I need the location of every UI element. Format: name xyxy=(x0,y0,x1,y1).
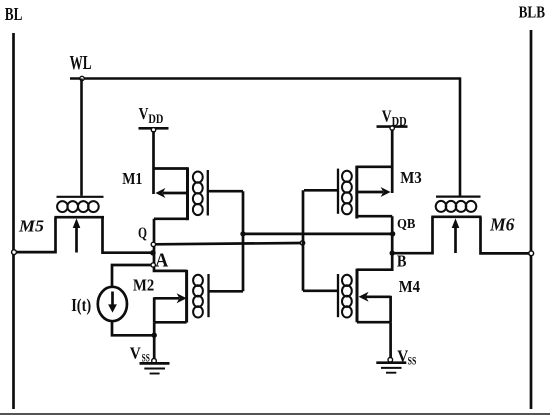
wire right cross-couple vertical (gates of M3,M4) xyxy=(302,190,305,290)
svg-text:M2: M2 xyxy=(133,275,154,294)
node on VDD right xyxy=(390,126,394,130)
label VDD left xyxy=(139,104,164,126)
wire Q column (M1 source to M2 drain) xyxy=(154,219,187,271)
current source I(t) xyxy=(98,287,127,321)
svg-text:V: V xyxy=(130,344,142,363)
svg-text:QB: QB xyxy=(397,217,415,232)
wire M1 gate lead xyxy=(208,190,243,193)
transistor M1 (PMOS pull-up left) xyxy=(154,167,208,220)
node on right gate vertical xyxy=(300,241,304,245)
junction on left gate vertical xyxy=(240,231,245,236)
transistor M4 (NMOS pull-down right) xyxy=(338,269,391,323)
label QB xyxy=(397,217,415,232)
svg-text:B: B xyxy=(397,251,407,270)
transistor M2 (NMOS pull-down left) xyxy=(154,270,208,323)
svg-text:SS: SS xyxy=(408,355,417,367)
label Q xyxy=(138,225,147,242)
wire left cross-couple vertical (gates of M1,M2) xyxy=(242,191,245,291)
label B xyxy=(397,251,407,270)
supply VDD left symbol xyxy=(139,127,169,130)
node on BL xyxy=(12,250,17,255)
node on WL (gate tap of M5) xyxy=(80,76,84,80)
wire M5 left lead to BL xyxy=(16,217,56,252)
transistor M3 (PMOS pull-up right) xyxy=(338,166,392,219)
wire WL corner down to M6 gate xyxy=(459,77,462,195)
svg-text:A: A xyxy=(155,250,168,272)
svg-text:M3: M3 xyxy=(400,168,422,187)
label BLB xyxy=(519,3,545,22)
wire M2 gate lead xyxy=(209,290,244,293)
wire Q to right gates (lower cross line) xyxy=(155,243,301,244)
label M2 xyxy=(133,275,154,294)
label M1 xyxy=(122,169,142,188)
svg-text:DD: DD xyxy=(148,112,163,126)
bit line BL xyxy=(12,33,15,409)
supply VDD right symbol xyxy=(377,125,408,128)
word line WL xyxy=(70,77,460,80)
node on VDD left xyxy=(151,128,155,132)
wire WL node down to M5 gate xyxy=(80,79,83,196)
wire M2 source down to VSS xyxy=(153,322,156,358)
wire node A to current source xyxy=(112,265,152,287)
wire M3 gate lead xyxy=(304,189,338,192)
node VSS right xyxy=(388,358,393,363)
ground left xyxy=(140,363,170,373)
junction at QB xyxy=(390,231,395,236)
label A xyxy=(155,250,168,272)
svg-text:M1: M1 xyxy=(122,169,142,188)
label M5 xyxy=(18,217,44,236)
label VSS right xyxy=(397,347,416,368)
svg-text:M4: M4 xyxy=(399,277,420,296)
transistor M6 (access NMOS, horizontal) xyxy=(431,197,481,253)
svg-text:BLB: BLB xyxy=(519,3,545,22)
wire QB to left gates (upper cross line) xyxy=(243,233,393,236)
wire VDD left down to M1 xyxy=(152,131,155,194)
junction M5 wire on Q column xyxy=(150,250,156,256)
junction node B xyxy=(390,250,395,255)
label I(t) xyxy=(71,295,91,316)
bit line BLB xyxy=(530,30,533,409)
node on BLB xyxy=(529,251,534,256)
svg-text:Q: Q xyxy=(138,225,147,242)
node Q xyxy=(151,242,155,246)
label WL xyxy=(70,52,92,74)
ground right xyxy=(376,363,406,373)
wire M6 right lead to BLB xyxy=(481,217,532,254)
wire M4 gate lead xyxy=(303,289,338,292)
svg-text:WL: WL xyxy=(70,52,92,74)
label BL xyxy=(5,4,23,24)
label M4 xyxy=(399,277,420,296)
wire M4 source down to VSS xyxy=(389,322,392,358)
transistor M5 (access NMOS, horizontal) xyxy=(54,197,104,253)
junction current source return xyxy=(152,333,157,338)
wire QB column (M3 source to M4 drain) xyxy=(357,216,392,270)
label M3 xyxy=(400,168,422,187)
label VSS left xyxy=(130,344,150,365)
label M6 xyxy=(489,215,514,235)
svg-text:BL: BL xyxy=(5,4,23,24)
svg-text:M6: M6 xyxy=(489,215,514,235)
wire M5 right lead to node Q column xyxy=(103,217,153,253)
wire M6 left lead to node B xyxy=(392,217,432,253)
bottom border line xyxy=(0,413,550,415)
svg-text:M5: M5 xyxy=(18,217,44,236)
wire current source to M2 source xyxy=(112,321,154,335)
label VDD right xyxy=(382,107,407,129)
node A xyxy=(151,263,155,267)
wire VDD right down to M3 xyxy=(391,129,394,193)
node VSS left xyxy=(152,359,157,364)
svg-text:I(t): I(t) xyxy=(71,295,91,316)
